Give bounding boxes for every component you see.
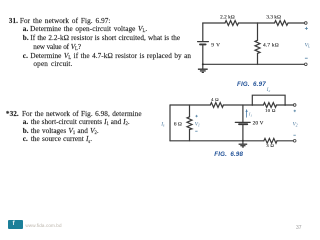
resistor R 4.7 kOhm (circuit 1 middle, vertical) (255, 40, 260, 54)
svg-text:V1: V1 (195, 121, 200, 127)
svg-text:I1: I1 (248, 112, 253, 118)
figure caption FIG. 6.97 (237, 82, 266, 88)
battery E 9V short plate (200, 43, 206, 45)
wire: circuit1 left branch upper (202, 23, 204, 41)
svg-text:2.2 kΩ: 2.2 kΩ (220, 14, 235, 20)
junction dot circuit1 middle-top (257, 22, 259, 24)
wire: circuit2 battery branch upper (242, 105, 244, 122)
wire: circuit2 6-Ohm branch upper (189, 105, 191, 117)
minus sign of V2 (293, 134, 295, 136)
problem 32 text (6, 111, 142, 118)
ground stem (circuit 1) (202, 64, 204, 68)
battery E 20V long plate (235, 121, 250, 123)
resistor R 3.3 kOhm (circuit 1 top-right) (275, 21, 289, 26)
junction dot circuit1 bottom-left (202, 63, 204, 65)
svg-text:VL: VL (305, 42, 311, 48)
figure caption FIG. 6.98 (214, 152, 243, 158)
svg-text:4 Ω: 4 Ω (211, 97, 219, 102)
page number (296, 225, 302, 231)
resistor R 6 Ohm (circuit 2 left, vertical) (187, 117, 192, 130)
wire: circuit2 6-Ohm branch lower (189, 130, 191, 141)
open terminal circuit1 bottom-right (305, 63, 308, 66)
wire: circuit2 top wire right segment to terminal (277, 104, 294, 106)
svg-text:4.7 kΩ: 4.7 kΩ (263, 43, 279, 49)
battery E 9V long plate (198, 41, 209, 43)
svg-text:20 V: 20 V (253, 121, 264, 127)
wire: circuit1 middle branch upper (257, 23, 259, 40)
plus sign of VL (305, 27, 308, 30)
ground symbol bars (circuit 2) (239, 144, 248, 147)
svg-text:6 Ω: 6 Ω (174, 122, 182, 128)
plus sign of V2 (294, 110, 296, 112)
ground symbol bars (circuit 1) (198, 69, 208, 72)
svg-text:V2: V2 (293, 122, 298, 128)
junction dot circuit1 middle-bottom (257, 64, 259, 66)
svg-text:10 Ω: 10 Ω (265, 108, 276, 113)
resistor R 2.2 kOhm (circuit 1 top-left) (225, 21, 239, 26)
footer url (25, 223, 61, 228)
wire: circuit2 top wire left segment (170, 104, 210, 106)
wire: circuit1 bottom wire (203, 63, 305, 65)
wire: circuit1 top-middle segment (239, 22, 275, 24)
battery E 20V short plate (239, 123, 247, 125)
junction dot circuit2 loop-right (284, 104, 286, 106)
wire: circuit2 top wire middle segment (223, 104, 263, 106)
open terminal circuit2 top-right (293, 104, 296, 107)
wire: circuit2 bottom wire right segment to terminal (277, 140, 293, 142)
plus sign of V1 (195, 115, 197, 117)
svg-text:3 Ω: 3 Ω (266, 143, 274, 148)
svg-text:9 V: 9 V (211, 42, 220, 48)
minus sign of VL (305, 57, 308, 59)
resistor R 10 Ohm (circuit 2 top right) (263, 103, 276, 108)
minus sign of V1 (195, 130, 197, 132)
junction dot circuit2 loop-left (251, 104, 253, 106)
svg-text:I2: I2 (266, 88, 271, 93)
current arrow I1 (blue, up) (246, 109, 248, 118)
svg-text:3.3 kΩ: 3.3 kΩ (266, 14, 281, 20)
wire: circuit1 top-left segment (203, 22, 225, 24)
resistor R 4 Ohm (circuit 2 top) (210, 103, 223, 108)
wire: circuit1 middle branch lower (257, 53, 259, 64)
open terminal circuit2 bottom-right (293, 140, 296, 143)
wire: circuit1 left branch lower (202, 45, 204, 64)
footer logo (8, 220, 23, 229)
resistor R 3 Ohm (circuit 2 bottom right) (264, 138, 277, 143)
junction dot circuit2 battery-bottom (242, 140, 244, 142)
svg-text:Is: Is (160, 121, 165, 127)
wire: circuit2 battery branch lower through ground (242, 125, 244, 144)
wire: circuit2 left vertical (169, 105, 171, 141)
wire: short-circuit loop across 10 Ohm (252, 95, 285, 105)
open terminal circuit1 top-right (305, 22, 308, 25)
wire: circuit1 top-right segment to terminal (288, 22, 304, 24)
problem 31 text (9, 18, 111, 25)
wire: circuit2 bottom wire left segment (170, 140, 264, 142)
